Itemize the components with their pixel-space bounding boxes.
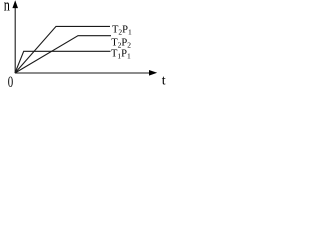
curve T2P2 <box>15 36 111 73</box>
x-axis arrowhead <box>149 70 157 76</box>
svg-text:t: t <box>162 74 166 89</box>
curve T1P1 <box>15 51 111 73</box>
svg-text:T2P1: T2P1 <box>112 25 132 37</box>
y-axis arrowhead <box>12 0 18 8</box>
svg-text:T1P1: T1P1 <box>111 49 131 61</box>
svg-text:0: 0 <box>8 73 14 91</box>
curve T2P1 <box>15 26 110 73</box>
svg-text:n: n <box>4 0 11 15</box>
x-axis <box>15 72 151 74</box>
y-axis <box>14 6 16 73</box>
